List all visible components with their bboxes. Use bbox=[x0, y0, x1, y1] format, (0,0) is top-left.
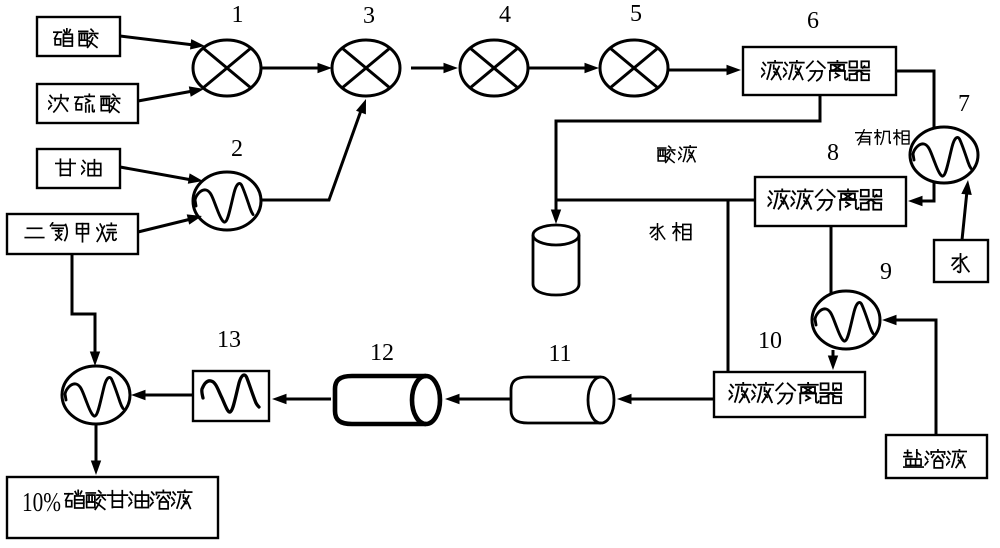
arrowhead M5 to separator 6 bbox=[727, 65, 742, 75]
box separator 10 液液分离器 bbox=[714, 372, 865, 417]
svg-text:8: 8 bbox=[827, 140, 839, 166]
wire 甘油 to E2 bbox=[120, 167, 192, 180]
text 硝酸甘油溶液 in output box bbox=[65, 490, 192, 509]
svg-text:5: 5 bbox=[630, 1, 642, 27]
wire separator 10 to column 11 bbox=[628, 398, 714, 401]
text 浓硫酸 bbox=[48, 94, 119, 112]
arrowhead 盐溶液 to E9 bbox=[882, 315, 897, 325]
box 二氯甲烷 bbox=[7, 214, 138, 254]
arrowhead 二氯甲烷 line to EL bbox=[90, 352, 100, 367]
wire separator 8 to E9 bbox=[830, 226, 833, 293]
wire E2 to M3 bbox=[261, 105, 363, 200]
svg-text:11: 11 bbox=[548, 341, 571, 367]
wire 硝酸 to M1 bbox=[120, 36, 194, 45]
text 液液分离器 in separator 6 bbox=[761, 60, 869, 80]
arrowhead separator 10 to column 11 bbox=[617, 394, 632, 404]
box separator 8 液液分离器 bbox=[755, 177, 906, 226]
svg-text:3: 3 bbox=[363, 3, 375, 29]
wire separator 6 to E7 bbox=[896, 71, 934, 128]
storage cylinder (acid receiver) bbox=[533, 225, 579, 295]
mixer M1 circle-X bbox=[193, 40, 261, 96]
box separator 6 液液分离器 bbox=[743, 47, 896, 95]
wire 浓硫酸 to M1 bbox=[138, 91, 193, 101]
arrowhead column 12 to box 13 bbox=[272, 394, 287, 404]
mixer M3 circle-X bbox=[332, 40, 400, 96]
wire separator 6 down-left to cylinder (acid line) bbox=[556, 95, 820, 212]
svg-text:2: 2 bbox=[231, 136, 243, 162]
wire column 11 to column 12 bbox=[456, 398, 510, 401]
box emulsifier 13 bbox=[193, 371, 269, 421]
arrowhead into E2 from 二氯甲烷 bbox=[187, 214, 202, 224]
arrowhead box 13 to EL bbox=[131, 390, 146, 400]
text 液液分离器 in separator 8 bbox=[768, 189, 882, 210]
wire M1 to M3 bbox=[261, 67, 321, 70]
box 甘油 bbox=[37, 149, 120, 188]
svg-text:1: 1 bbox=[232, 2, 244, 28]
arrowhead into E2 from 甘油 bbox=[188, 173, 203, 183]
emulsifier E9 circle-wave bbox=[812, 291, 880, 349]
arrowhead into M1 from 浓硫酸 bbox=[189, 86, 204, 96]
wire box 13 to EL bbox=[143, 394, 192, 397]
arrowhead M1 to M3 bbox=[318, 63, 333, 73]
wire 二氯甲烷 to E2 bbox=[138, 219, 191, 232]
mixer M5 circle-X bbox=[600, 40, 668, 96]
box 浓硫酸 bbox=[37, 84, 138, 123]
wire M4 to M5 bbox=[528, 67, 588, 70]
text 水 in box bbox=[952, 254, 969, 273]
box output 10%硝酸甘油溶液 bbox=[7, 477, 218, 538]
wire M5 to separator 6 bbox=[668, 69, 730, 72]
svg-text:13: 13 bbox=[217, 327, 241, 353]
wave inside box 13 bbox=[202, 375, 259, 412]
wire 盐溶液 to E9 bbox=[894, 320, 936, 435]
text 盐溶液 bbox=[903, 449, 966, 467]
wire separator 8 aqueous phase left bbox=[556, 199, 755, 202]
wire M3 to M4 bbox=[411, 67, 446, 70]
extraction column 12 horizontal cylinder (thick) bbox=[335, 376, 440, 424]
arrowhead M4 to M5 bbox=[585, 63, 600, 73]
arrowhead E2 to M3 bbox=[356, 99, 366, 114]
text 水相 floating label bbox=[650, 223, 691, 241]
arrowhead E9 to separator 10 bbox=[828, 356, 838, 371]
wire 水 to E7 bbox=[962, 191, 967, 240]
wire aqueous junction down to separator 10 bbox=[727, 200, 730, 372]
arrowhead M3 to M4 bbox=[444, 63, 459, 73]
wire column 12 to box 13 bbox=[284, 398, 331, 401]
arrowhead into M1 from 硝酸 bbox=[190, 39, 205, 49]
emulsifier EL circle-wave bottom-left bbox=[62, 366, 130, 424]
text 甘油 bbox=[56, 159, 101, 175]
arrowhead column 11 to column 12 bbox=[445, 394, 460, 404]
arrowhead E7 to separator 8 bbox=[908, 196, 923, 206]
text 有机相 floating label bbox=[855, 130, 909, 145]
arrowhead acid line into cylinder bbox=[551, 210, 561, 225]
wire E7 to separator 8 bbox=[918, 182, 934, 201]
text 酸液 floating label bbox=[657, 145, 696, 162]
svg-text:6: 6 bbox=[807, 8, 819, 34]
wire EL to output box bbox=[95, 424, 98, 463]
emulsifier E7 circle-wave bbox=[910, 127, 978, 183]
emulsifier E2 circle-wave bbox=[193, 172, 261, 230]
text 硝酸 bbox=[54, 29, 98, 47]
svg-text:12: 12 bbox=[370, 340, 394, 366]
svg-text:10%: 10% bbox=[22, 487, 61, 517]
arrowhead 水 to E7 bbox=[961, 180, 972, 195]
mixer M4 circle-X bbox=[460, 40, 528, 96]
extraction column 11 horizontal cylinder bbox=[511, 377, 614, 423]
arrowhead EL to output box bbox=[91, 461, 101, 476]
box 硝酸 bbox=[37, 17, 120, 56]
svg-text:10: 10 bbox=[758, 328, 782, 354]
text 二氯甲烷 bbox=[25, 223, 116, 242]
svg-text:4: 4 bbox=[499, 2, 511, 28]
box 水 bbox=[934, 240, 988, 282]
box 盐溶液 bbox=[886, 435, 987, 478]
text 液液分离器 in separator 10 bbox=[729, 382, 842, 403]
wire E9 to separator 10 bbox=[832, 350, 835, 358]
wire 二氯甲烷 down to EL bbox=[72, 254, 95, 353]
svg-text:9: 9 bbox=[880, 259, 892, 285]
svg-text:7: 7 bbox=[958, 91, 970, 117]
